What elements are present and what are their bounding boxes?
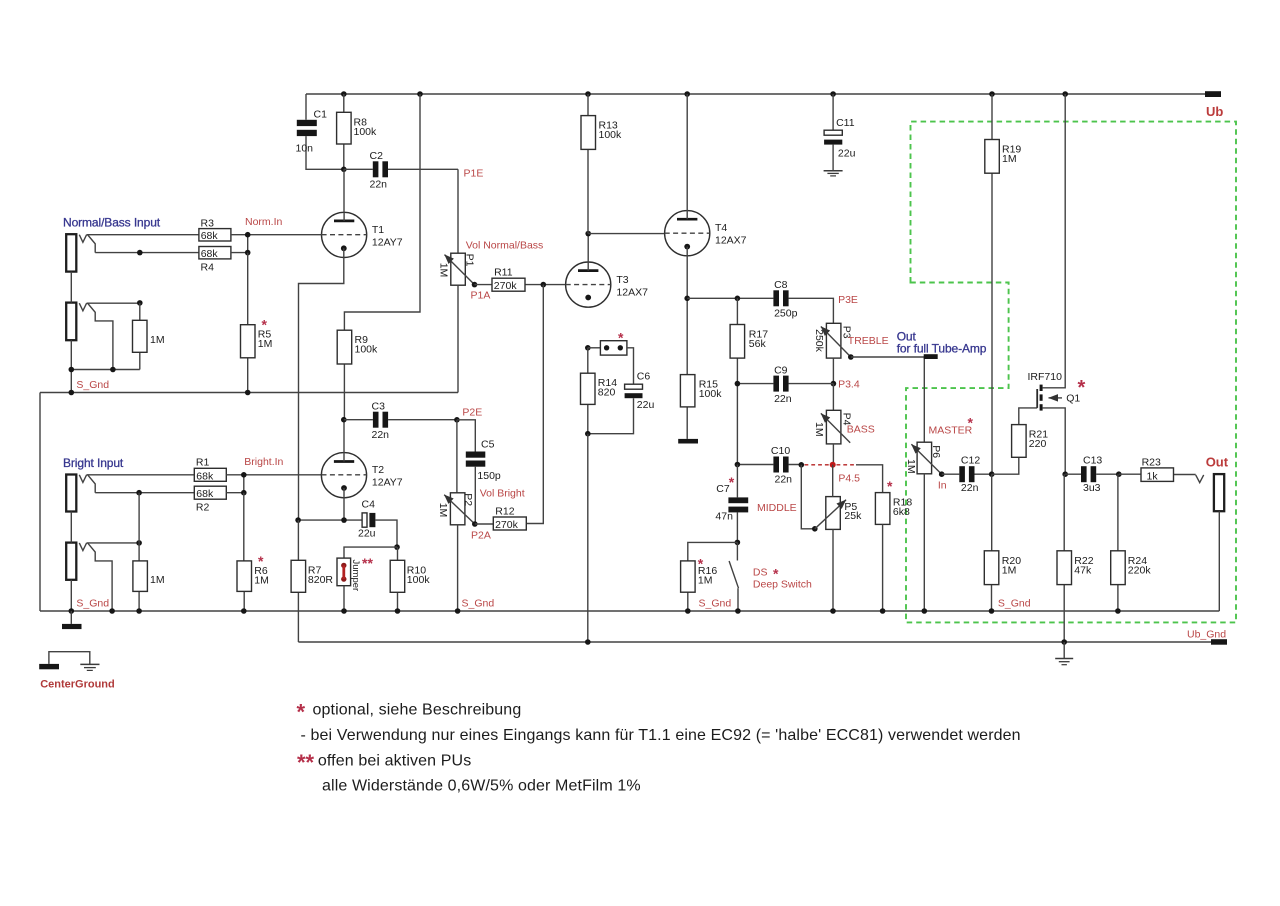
- output jack Out: [1196, 454, 1229, 611]
- tube T4 12AX7: [665, 94, 747, 256]
- resistor R23: [1119, 456, 1196, 482]
- svg-text:1M: 1M: [1002, 564, 1017, 576]
- node Out for full Tube-Amp: [851, 329, 987, 442]
- resistor R4: [199, 247, 231, 274]
- node P4.5 optional red link: [805, 462, 861, 485]
- svg-text:Ub_Gnd: Ub_Gnd: [1187, 629, 1226, 641]
- svg-text:22n: 22n: [961, 482, 979, 494]
- svg-text:22n: 22n: [370, 179, 388, 191]
- svg-text:R4: R4: [201, 262, 215, 274]
- transistor Q1 IRF710: [1028, 94, 1086, 474]
- svg-text:P4.5: P4.5: [838, 473, 860, 485]
- jumper cathode bypass: [337, 555, 373, 611]
- capacitor C11: [824, 94, 855, 170]
- svg-text:68k: 68k: [201, 248, 219, 260]
- potentiometer P1: [438, 240, 544, 393]
- tube T1 12AY7: [322, 169, 403, 257]
- svg-text:100k: 100k: [355, 344, 379, 356]
- tube T2 12AY7: [321, 420, 402, 498]
- potentiometer P6 MASTER: [905, 415, 973, 612]
- resistor R19: [985, 94, 1022, 474]
- svg-text:3u3: 3u3: [1083, 482, 1101, 494]
- svg-text:*: *: [729, 474, 735, 490]
- svg-text:C1: C1: [314, 109, 328, 121]
- potentiometer P4 BASS: [813, 384, 875, 466]
- resistor R20: [984, 474, 1021, 611]
- svg-text:Norm.In: Norm.In: [245, 216, 283, 228]
- wire top supply rail Ub: [306, 93, 1205, 95]
- input jack Bright upper: [63, 456, 124, 512]
- resistor R2: [194, 486, 226, 513]
- wire Normal ring to R4: [95, 250, 199, 256]
- legend notes: [297, 700, 1021, 795]
- svg-text:C3: C3: [372, 400, 386, 412]
- capacitor C8: [773, 279, 858, 320]
- potentiometer P5 MIDDLE: [757, 465, 862, 611]
- svg-text:12AX7: 12AX7: [616, 287, 648, 299]
- resistor R24: [1111, 474, 1152, 611]
- svg-text:T1: T1: [372, 224, 384, 236]
- svg-text:**: **: [362, 555, 373, 571]
- capacitor C3: [341, 400, 457, 441]
- svg-text:P2: P2: [462, 493, 474, 506]
- svg-text:220k: 220k: [1128, 564, 1152, 576]
- resistor R10: [390, 547, 430, 611]
- resistor R13: [581, 94, 622, 234]
- svg-text:S_Gnd: S_Gnd: [998, 598, 1031, 610]
- wire left S_Gnd column: [39, 393, 41, 612]
- potentiometer P3 TREBLE: [813, 323, 888, 390]
- svg-text:DS: DS: [753, 567, 768, 579]
- svg-text:Vol Normal/Bass: Vol Normal/Bass: [466, 240, 544, 252]
- resistor R11: [475, 267, 567, 292]
- svg-text:22u: 22u: [358, 528, 376, 540]
- capacitor C10: [735, 445, 804, 486]
- svg-text:100k: 100k: [407, 574, 431, 586]
- svg-text:for full Tube-Amp: for full Tube-Amp: [897, 341, 987, 355]
- wire P4.5 to R18: [856, 465, 883, 493]
- wire T3 anode node to T4 grid: [585, 231, 665, 237]
- svg-text:*: *: [1078, 377, 1086, 399]
- svg-text:*: *: [297, 700, 306, 725]
- capacitor C6: [588, 371, 655, 434]
- svg-text:22n: 22n: [372, 429, 390, 441]
- svg-text:C8: C8: [774, 279, 788, 291]
- svg-text:100k: 100k: [699, 388, 723, 400]
- svg-text:*: *: [968, 415, 974, 431]
- svg-text:12AY7: 12AY7: [372, 237, 403, 249]
- svg-text:R2: R2: [196, 502, 210, 514]
- svg-text:100k: 100k: [354, 126, 378, 138]
- resistor R16: [681, 542, 738, 611]
- svg-text:1M: 1M: [698, 575, 713, 587]
- resistor 1M bright input load: [133, 493, 165, 611]
- node P2E: [454, 407, 482, 423]
- svg-text:270k: 270k: [494, 280, 518, 292]
- tube T3 12AX7: [566, 234, 648, 308]
- resistor R21: [992, 408, 1049, 474]
- svg-text:Bright Input: Bright Input: [63, 456, 124, 470]
- node Norm.In: [231, 216, 322, 255]
- svg-text:68k: 68k: [196, 470, 214, 482]
- svg-text:P2E: P2E: [462, 407, 482, 419]
- capacitor C2: [344, 150, 458, 191]
- svg-text:S_Gnd: S_Gnd: [76, 598, 109, 610]
- resistor R1: [194, 456, 226, 482]
- svg-text:In: In: [938, 480, 947, 492]
- wire shared cathode node: [295, 517, 362, 523]
- resistor R7: [291, 520, 333, 642]
- resistor R12: [475, 505, 527, 530]
- svg-text:MIDDLE: MIDDLE: [757, 502, 797, 514]
- svg-text:250k: 250k: [813, 329, 825, 353]
- svg-text:R12: R12: [495, 505, 514, 517]
- node Bright.In: [226, 456, 321, 496]
- svg-text:P3.4: P3.4: [838, 379, 860, 391]
- svg-text:22n: 22n: [775, 474, 793, 486]
- wire cathode RC node: [344, 544, 400, 558]
- svg-text:220: 220: [1029, 438, 1047, 450]
- svg-text:optional, siehe Beschreibung: optional, siehe Beschreibung: [313, 702, 522, 719]
- node P1E: [458, 168, 483, 254]
- ground chassis bar left: [62, 611, 82, 629]
- svg-text:C12: C12: [961, 455, 980, 467]
- node S_Gnd labels: [76, 598, 1030, 610]
- svg-text:P2A: P2A: [471, 530, 491, 542]
- wire T4 cathode down to R15: [684, 247, 690, 375]
- svg-text:P1A: P1A: [471, 290, 491, 302]
- svg-text:T4: T4: [715, 222, 727, 234]
- svg-text:C5: C5: [481, 439, 495, 451]
- svg-text:1M: 1M: [905, 459, 917, 474]
- svg-text:56k: 56k: [749, 338, 767, 350]
- capacitor C5: [457, 420, 501, 524]
- svg-text:**: **: [297, 750, 315, 775]
- svg-text:Jumper: Jumper: [350, 560, 361, 592]
- svg-text:R23: R23: [1142, 456, 1161, 468]
- svg-text:*: *: [887, 478, 893, 494]
- resistor R14: [581, 348, 618, 642]
- svg-text:R11: R11: [494, 267, 513, 279]
- svg-text:1M: 1M: [254, 575, 269, 587]
- svg-text:Out: Out: [1206, 454, 1229, 469]
- node Ub terminal: [1205, 91, 1223, 119]
- svg-text:TREBLE: TREBLE: [848, 335, 889, 347]
- svg-text:R3: R3: [201, 217, 215, 229]
- ground under R22: [1055, 642, 1073, 665]
- resistor R9: [337, 94, 420, 420]
- svg-text:47n: 47n: [715, 511, 733, 523]
- svg-text:- bei Verwendung nur eines Ein: - bei Verwendung nur eines Eingangs kann…: [301, 727, 1021, 744]
- svg-text:C4: C4: [362, 499, 376, 511]
- svg-text:S_Gnd: S_Gnd: [699, 598, 732, 610]
- svg-text:1M: 1M: [438, 263, 450, 278]
- svg-text:T2: T2: [372, 464, 384, 476]
- input jack Normal/Bass upper: [63, 216, 161, 272]
- capacitor C7: [715, 465, 748, 546]
- svg-text:6k8: 6k8: [893, 506, 910, 518]
- svg-text:S_Gnd: S_Gnd: [76, 379, 109, 391]
- wire Bright tip to R1: [87, 474, 195, 476]
- svg-text:C10: C10: [771, 445, 790, 457]
- wire Normal tip to R3: [87, 234, 199, 236]
- svg-text:MASTER: MASTER: [929, 425, 973, 437]
- svg-text:10n: 10n: [296, 143, 314, 155]
- capacitor C13: [1062, 455, 1121, 495]
- svg-text:C6: C6: [637, 371, 651, 383]
- wire S_Gnd main rail: [40, 608, 1219, 614]
- ground CenterGround: [39, 652, 115, 691]
- svg-text:alle Widerstände 0,6W/5% oder: alle Widerstände 0,6W/5% oder MetFilm 1%: [322, 778, 641, 795]
- svg-text:T3: T3: [616, 274, 628, 286]
- svg-text:22n: 22n: [774, 393, 792, 405]
- svg-text:100k: 100k: [599, 129, 623, 141]
- svg-text:BASS: BASS: [847, 424, 875, 436]
- switch DS deep switch: [729, 542, 812, 611]
- svg-text:820R: 820R: [308, 574, 334, 586]
- svg-text:150p: 150p: [477, 470, 501, 482]
- jumper T3 cathode: [585, 330, 634, 385]
- capacitor C12: [942, 455, 995, 495]
- svg-text:1M: 1M: [150, 334, 165, 346]
- svg-text:Normal/Bass Input: Normal/Bass Input: [63, 216, 161, 230]
- svg-text:*: *: [258, 553, 264, 569]
- svg-text:C9: C9: [774, 364, 788, 376]
- svg-text:*: *: [698, 556, 704, 572]
- capacitor C4: [358, 499, 397, 548]
- resistor R15: [680, 375, 722, 439]
- wire sleeve bus y369: [69, 367, 140, 373]
- svg-text:12AX7: 12AX7: [715, 235, 747, 247]
- resistor R22: [1057, 474, 1094, 642]
- svg-text:1M: 1M: [150, 574, 165, 586]
- resistor R8: [337, 94, 377, 172]
- svg-text:12AY7: 12AY7: [372, 477, 403, 489]
- node rail junction dots: [341, 91, 1068, 97]
- svg-text:22u: 22u: [637, 399, 655, 411]
- svg-text:68k: 68k: [196, 488, 214, 500]
- svg-text:250p: 250p: [774, 308, 798, 320]
- svg-text:1k: 1k: [1147, 470, 1159, 482]
- svg-text:S_Gnd: S_Gnd: [462, 598, 495, 610]
- svg-text:Bright.In: Bright.In: [244, 456, 283, 468]
- svg-text:P3E: P3E: [838, 294, 858, 306]
- svg-text:*: *: [262, 317, 268, 333]
- potentiometer P2 Vol Bright: [437, 420, 525, 611]
- capacitor C1: [296, 94, 344, 169]
- wire Bright ring to R2: [95, 490, 194, 496]
- svg-text:C13: C13: [1083, 455, 1102, 467]
- wire T2 cathode: [343, 488, 345, 520]
- svg-text:C11: C11: [836, 117, 855, 129]
- resistor R6: [237, 493, 269, 611]
- svg-text:P1: P1: [463, 254, 475, 267]
- svg-text:R1: R1: [196, 456, 210, 468]
- wire S_Gnd upper rail: [40, 379, 458, 395]
- svg-text:Vol Bright: Vol Bright: [480, 488, 525, 500]
- resistor R5: [241, 253, 273, 393]
- resistor R18: [875, 478, 912, 611]
- svg-text:820: 820: [598, 387, 616, 399]
- svg-text:1M: 1M: [437, 503, 449, 518]
- resistor R17: [730, 298, 768, 464]
- svg-text:CenterGround: CenterGround: [40, 679, 115, 691]
- input jack Bright lower: [66, 512, 139, 612]
- capacitor C9: [735, 364, 834, 405]
- resistor R3: [199, 217, 231, 242]
- svg-text:P6: P6: [930, 445, 942, 458]
- ground under C11: [824, 171, 843, 176]
- svg-text:P1E: P1E: [464, 168, 484, 180]
- svg-text:offen bei aktiven PUs: offen bei aktiven PUs: [318, 753, 471, 770]
- svg-text:68k: 68k: [201, 230, 219, 242]
- wire R12 feed column: [526, 285, 543, 524]
- svg-text:270k: 270k: [495, 519, 519, 531]
- ground bar under R15: [678, 439, 698, 444]
- resistor 1M normal input load: [133, 300, 165, 369]
- node Ub_Gnd terminal: [1187, 629, 1227, 645]
- svg-text:1M: 1M: [1002, 153, 1017, 165]
- green dashed box MOSFET buffer outline: [906, 122, 1236, 623]
- svg-text:Ub: Ub: [1206, 104, 1223, 119]
- svg-text:1M: 1M: [258, 338, 273, 350]
- input jack Normal/Bass lower: [66, 272, 140, 393]
- wire tone stack top C8 row: [687, 296, 833, 324]
- wire Ub_Gnd rail: [298, 639, 1211, 645]
- svg-text:22u: 22u: [838, 148, 856, 160]
- svg-text:*: *: [618, 330, 624, 346]
- svg-text:C2: C2: [370, 150, 384, 162]
- svg-text:IRF710: IRF710: [1028, 371, 1063, 383]
- svg-text:1M: 1M: [813, 422, 825, 437]
- wire T1 cathode to shared node: [299, 248, 344, 520]
- svg-text:Deep Switch: Deep Switch: [753, 579, 812, 591]
- svg-text:25k: 25k: [844, 510, 862, 522]
- svg-text:47k: 47k: [1074, 564, 1092, 576]
